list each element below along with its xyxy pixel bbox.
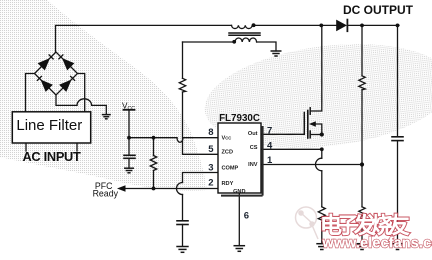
svg-text:RDY: RDY <box>222 181 234 187</box>
svg-text:7: 7 <box>267 126 272 137</box>
svg-text:COMP: COMP <box>222 165 239 171</box>
svg-text:DC OUTPUT: DC OUTPUT <box>343 3 414 17</box>
svg-text:4: 4 <box>267 141 273 152</box>
svg-text:2: 2 <box>208 177 213 188</box>
svg-text:FL7930C: FL7930C <box>219 113 260 124</box>
svg-text:3: 3 <box>208 163 213 174</box>
svg-text:ZCD: ZCD <box>222 149 234 155</box>
svg-text:AC INPUT: AC INPUT <box>22 149 81 164</box>
svg-text:GND: GND <box>233 189 245 195</box>
svg-text:Out: Out <box>248 131 258 137</box>
svg-text:8: 8 <box>208 127 213 138</box>
svg-text:www.elecfans.com: www.elecfans.com <box>322 236 432 252</box>
svg-text:5: 5 <box>208 144 214 155</box>
svg-text:Ready: Ready <box>93 188 119 198</box>
svg-text:CS: CS <box>250 145 258 151</box>
svg-text:电子发烧友: 电子发烧友 <box>320 213 410 238</box>
svg-text:INV: INV <box>248 162 258 168</box>
svg-text:1: 1 <box>267 155 273 166</box>
svg-text:6: 6 <box>244 210 249 221</box>
svg-text:Line Filter: Line Filter <box>16 117 82 134</box>
